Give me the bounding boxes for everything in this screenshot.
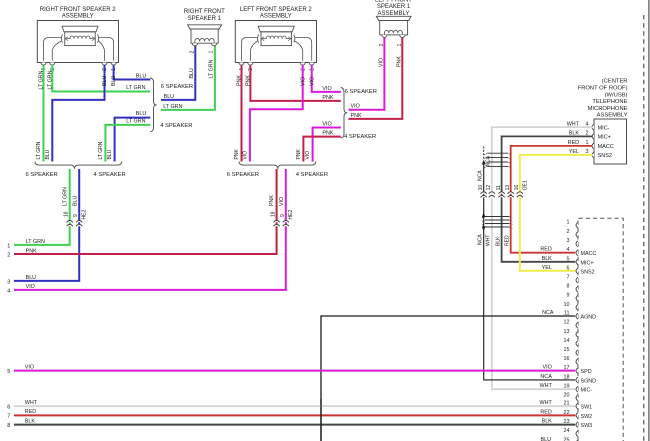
svg-text:LT GRN: LT GRN (48, 70, 54, 89)
telephone microphone assembly label (578, 79, 628, 119)
svg-text:2: 2 (190, 51, 196, 54)
svg-text:6 SPEAKER: 6 SPEAKER (227, 172, 259, 178)
telephone microphone assembly box (594, 119, 627, 164)
svg-text:RIGHT FRONT: RIGHT FRONT (184, 9, 225, 15)
svg-text:SW1: SW1 (581, 405, 593, 411)
dashed connector box (578, 218, 623, 441)
svg-text:18: 18 (271, 211, 277, 217)
brace 6/4 speaker groups to harness (right) (35, 162, 122, 169)
wire LT GRN from pin 3 to brace (52, 65, 150, 91)
wire LT GRN to connector HE2 pin 18 then wire 1 (14, 169, 70, 245)
svg-text:RED: RED (540, 247, 551, 253)
svg-text:4 SPEAKER: 4 SPEAKER (160, 123, 192, 129)
svg-text:NCA: NCA (478, 234, 484, 245)
svg-text:RED: RED (25, 409, 36, 415)
svg-text:5: 5 (7, 369, 10, 375)
speaker RIGHT FRONT SPEAKER 1 (184, 9, 225, 46)
svg-text:VIO: VIO (379, 58, 385, 67)
svg-text:9: 9 (280, 214, 286, 217)
svg-text:24: 24 (564, 428, 570, 434)
svg-text:4 SPEAKER: 4 SPEAKER (344, 134, 376, 140)
wire RED mic pin1 to connector pin 4 MACC (511, 146, 593, 253)
svg-text:25: 25 (564, 437, 570, 441)
svg-text:1: 1 (209, 51, 215, 54)
svg-text:1: 1 (397, 44, 403, 47)
svg-text:NCA: NCA (478, 170, 484, 181)
svg-text:(W/USB): (W/USB) (605, 92, 628, 98)
svg-text:16: 16 (564, 356, 570, 362)
svg-text:15: 15 (564, 347, 570, 353)
svg-text:7: 7 (7, 414, 10, 420)
svg-text:LT GRN: LT GRN (208, 59, 214, 78)
svg-text:VIO: VIO (351, 104, 360, 110)
wire PNK brace output to left front speaker 1 pin 1 (349, 37, 403, 119)
svg-text:VIO: VIO (279, 197, 285, 206)
svg-text:11: 11 (496, 185, 502, 190)
svg-text:MACC: MACC (598, 144, 614, 150)
svg-text:BLK: BLK (25, 418, 36, 424)
svg-text:LT GRN: LT GRN (26, 239, 45, 245)
wire PNK from pin 3 to brace (250, 65, 340, 101)
svg-text:8: 8 (7, 423, 10, 429)
svg-text:6 SPEAKER: 6 SPEAKER (26, 172, 58, 178)
svg-text:VIO: VIO (242, 151, 248, 160)
wire YEL mic pin3 to connector pin 6 SNS2 (520, 155, 593, 271)
svg-text:FRONT OF ROOF): FRONT OF ROOF) (578, 86, 628, 92)
svg-text:SGND: SGND (581, 378, 597, 384)
wire NCA vertical overlay at crossings (320, 399, 322, 441)
wire 6 WHT to pin 21 SW1 (14, 405, 575, 407)
brace 6/4 speaker groups to harness (left) (239, 162, 316, 169)
wire NCA shield drain to connector pin 18 SGND (483, 147, 485, 159)
svg-text:4: 4 (567, 247, 570, 253)
svg-text:PNK: PNK (351, 113, 362, 119)
wire LT GRN 4-speaker branch (105, 125, 150, 162)
svg-text:6: 6 (7, 405, 10, 411)
svg-text:PNK: PNK (26, 248, 37, 254)
svg-text:6 SPEAKER: 6 SPEAKER (161, 84, 193, 90)
pin 25 partially visible (576, 440, 578, 441)
svg-text:ASSEMBLY: ASSEMBLY (260, 14, 292, 20)
svg-text:BLU: BLU (541, 437, 552, 441)
svg-text:10: 10 (564, 302, 570, 308)
svg-text:MACC: MACC (581, 251, 597, 257)
svg-text:2: 2 (567, 229, 570, 235)
svg-text:13: 13 (505, 185, 511, 191)
svg-text:SW2: SW2 (581, 414, 593, 420)
svg-text:BLU: BLU (26, 275, 37, 281)
shield symbol upper (487, 152, 508, 154)
wire VIO 4-speaker branch (313, 128, 341, 162)
svg-text:(CENTER: (CENTER (602, 79, 628, 85)
svg-text:MICROPHONE: MICROPHONE (588, 106, 628, 112)
svg-text:20: 20 (564, 392, 570, 398)
svg-text:SW3: SW3 (581, 423, 593, 429)
svg-text:WHT: WHT (540, 400, 553, 406)
svg-text:LT GRN: LT GRN (98, 141, 104, 159)
svg-text:12: 12 (564, 320, 570, 326)
svg-text:9: 9 (567, 293, 570, 299)
svg-text:PNK: PNK (322, 95, 333, 101)
connector signal names (581, 251, 597, 429)
wire VIO from pin 2 down-left to 6-speaker group (250, 65, 303, 161)
svg-text:14: 14 (564, 338, 570, 344)
svg-text:BLU: BLU (111, 76, 117, 86)
svg-text:SNS2: SNS2 (598, 153, 612, 159)
svg-text:HE2: HE2 (82, 210, 88, 220)
svg-text:RED: RED (505, 235, 511, 246)
wire BLU brace output to right front speaker 1 pin 2 (161, 46, 195, 100)
svg-text:10: 10 (478, 185, 484, 191)
svg-text:LT GRN: LT GRN (163, 104, 182, 110)
wire 5 VIO to pin 17 SPD (14, 370, 575, 372)
speaker LEFT FRONT SPEAKER 1 ASSEMBLY (375, 0, 412, 38)
wire BLU from pin 2 down-left to 6-speaker group (52, 65, 104, 161)
svg-text:7: 7 (567, 275, 570, 281)
wire PNK 4-speaker branch (303, 137, 340, 162)
svg-text:MIC-: MIC- (598, 125, 610, 131)
svg-text:NCA: NCA (542, 310, 554, 316)
speaker LEFT FRONT SPEAKER 2 ASSEMBLY (235, 7, 316, 65)
brace 6/4 speaker right front (150, 78, 156, 132)
svg-text:PNK: PNK (246, 75, 252, 86)
svg-text:WHT: WHT (540, 383, 553, 389)
svg-text:BLU: BLU (136, 111, 147, 117)
svg-text:RIGHT FRONT SPEAKER 2: RIGHT FRONT SPEAKER 2 (40, 7, 116, 13)
svg-text:PNK: PNK (269, 195, 275, 206)
svg-text:1: 1 (567, 220, 570, 226)
svg-text:TELEPHONE: TELEPHONE (592, 99, 627, 105)
svg-text:SNS2: SNS2 (581, 269, 595, 275)
svg-text:5: 5 (567, 256, 570, 262)
shield symbol lower (485, 216, 510, 218)
svg-text:LEFT FRONT SPEAKER 2: LEFT FRONT SPEAKER 2 (240, 7, 312, 13)
mic box pins 4 2 1 3 (592, 124, 594, 130)
svg-text:SPEAKER 1: SPEAKER 1 (377, 4, 411, 10)
speaker RIGHT FRONT SPEAKER 2 ASSEMBLY (37, 7, 118, 65)
connector OE1 row (481, 192, 487, 194)
svg-text:BLU: BLU (164, 94, 175, 100)
svg-text:BLK: BLK (542, 256, 553, 262)
wire BLU to connector HE2 pin 9 then wire 3 (14, 169, 79, 281)
svg-text:SPEAKER 1: SPEAKER 1 (188, 16, 222, 22)
svg-text:PNK: PNK (397, 56, 403, 67)
svg-text:LT GRN: LT GRN (39, 70, 45, 89)
pin numbers 4 3 2 1 of right front speaker 2 (41, 68, 117, 71)
svg-text:MIC+: MIC+ (581, 260, 594, 266)
svg-text:6 SPEAKER: 6 SPEAKER (345, 89, 377, 95)
svg-text:MIC+: MIC+ (598, 135, 611, 141)
svg-text:16: 16 (514, 185, 520, 191)
svg-text:3: 3 (7, 279, 10, 285)
svg-text:PNK: PNK (322, 130, 333, 136)
svg-text:VIO: VIO (322, 86, 331, 92)
svg-text:LT GRN: LT GRN (36, 141, 42, 159)
wire BLU from pin 1 to brace (114, 65, 151, 79)
wire VIO from pin 1 to brace (312, 65, 341, 92)
svg-text:ASSEMBLY: ASSEMBLY (597, 113, 628, 119)
svg-text:2: 2 (7, 253, 10, 259)
wire LT GRN from pin 4 down to 6-speaker group (43, 65, 45, 161)
wire BLK mic pin2 to connector pin 5 MIC+ (502, 136, 593, 261)
svg-text:19: 19 (564, 384, 570, 390)
wire VIO to connector HE2 pin 9 then wire 4 (14, 169, 286, 290)
svg-text:VIO: VIO (309, 77, 315, 86)
svg-text:2: 2 (379, 44, 385, 47)
svg-text:LT GRN: LT GRN (126, 85, 145, 91)
svg-text:BLU: BLU (136, 74, 147, 80)
connector pins 1-24 (564, 220, 579, 437)
svg-text:VIO: VIO (25, 364, 34, 370)
wire VIO brace output to left front speaker 1 pin 2 (349, 37, 385, 110)
wire NCA to pin 11 AGND (321, 316, 575, 441)
wire 8 BLK to pin 23 SW3 (14, 424, 575, 426)
page boundary dashed line (643, 15, 645, 441)
svg-text:12: 12 (486, 185, 492, 191)
svg-text:PNK: PNK (296, 149, 302, 160)
svg-text:9: 9 (73, 214, 79, 217)
svg-text:VIO: VIO (300, 77, 306, 86)
svg-text:LT GRN: LT GRN (126, 119, 145, 125)
svg-text:6: 6 (567, 265, 570, 271)
svg-text:HE2: HE2 (288, 210, 294, 220)
svg-text:VIO: VIO (322, 121, 331, 127)
svg-text:4: 4 (7, 288, 10, 294)
svg-text:8: 8 (567, 284, 570, 290)
svg-text:AGND: AGND (581, 315, 597, 321)
svg-text:PNK: PNK (237, 75, 243, 86)
svg-text:BLU: BLU (189, 68, 195, 78)
svg-text:ASSEMBLY: ASSEMBLY (62, 14, 94, 20)
svg-text:4 SPEAKER: 4 SPEAKER (296, 172, 328, 178)
svg-text:3: 3 (567, 238, 570, 244)
svg-text:1: 1 (7, 243, 10, 249)
wire BLU 4-speaker branch (115, 118, 151, 162)
svg-text:OE1: OE1 (523, 180, 529, 190)
svg-text:LEFT FRONT: LEFT FRONT (375, 0, 412, 4)
svg-text:WHT: WHT (25, 400, 38, 406)
svg-text:PNK: PNK (234, 149, 240, 160)
page border solid line at right edge (648, 0, 650, 441)
svg-text:18: 18 (64, 211, 70, 217)
brace 6/4 speaker left front (341, 88, 347, 139)
svg-text:VIO: VIO (26, 284, 35, 290)
wire LT GRN brace output to right front speaker 1 pin 1 (161, 46, 215, 110)
svg-text:4 SPEAKER: 4 SPEAKER (94, 172, 126, 178)
svg-text:MIC-: MIC- (581, 388, 593, 394)
wire 7 RED to pin 22 SW2 (14, 414, 575, 416)
svg-text:BLU: BLU (73, 196, 79, 206)
svg-text:13: 13 (564, 329, 570, 335)
svg-text:VIO: VIO (305, 151, 311, 160)
svg-text:BLU: BLU (107, 149, 113, 159)
svg-text:SPD: SPD (581, 369, 592, 375)
wire WHT mic pin4 to connector pin 19 MIC- (492, 127, 593, 389)
svg-text:BLU: BLU (102, 76, 108, 86)
svg-text:LT GRN: LT GRN (62, 187, 68, 206)
svg-text:YEL: YEL (542, 265, 552, 271)
svg-text:WHT: WHT (486, 235, 492, 246)
svg-text:18: 18 (564, 374, 570, 380)
svg-text:BLU: BLU (45, 149, 51, 159)
svg-text:NCA: NCA (540, 374, 552, 380)
wire PNK from pin 4 down to 6-speaker group (241, 65, 243, 161)
svg-text:NCA: NCA (486, 155, 492, 166)
svg-text:BLK: BLK (496, 236, 502, 246)
wire PNK to connector HE2 pin 18 then wire 2 (14, 169, 277, 254)
